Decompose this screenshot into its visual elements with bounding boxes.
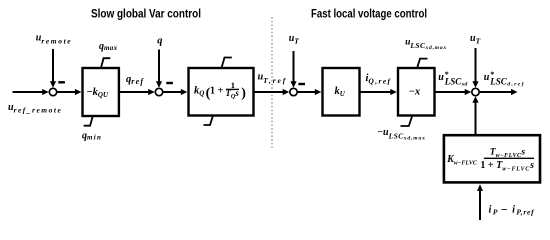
svg-text:uT: uT <box>289 33 300 46</box>
wire: kU to block -x, label iQ,ref <box>360 89 397 95</box>
summing junction S2 <box>155 88 162 95</box>
minus sign at S1 <box>58 81 65 83</box>
wire: kQ to summing junction S3, label uT,ref <box>254 89 290 95</box>
label iP - iP,ref <box>489 202 536 216</box>
block kU <box>323 68 360 116</box>
wire: iP - iP,ref up into washout block <box>477 184 483 220</box>
wire: uT down into summing junction S4 <box>472 48 478 88</box>
block -x limiter <box>398 68 435 116</box>
svg-text:q: q <box>157 35 162 46</box>
svg-text:uref_remote: uref_remote <box>8 102 62 115</box>
svg-text:d,ref: d,ref <box>507 81 525 87</box>
svg-text:i: i <box>489 204 492 215</box>
svg-text:−x: −x <box>409 86 421 97</box>
svg-text:uremote: uremote <box>36 33 72 46</box>
svg-text:uT: uT <box>470 33 481 46</box>
label Kw-FLVC washout transfer function <box>446 147 534 172</box>
label kQ(1+1/TQs) <box>194 80 246 101</box>
saturation glyph bottom of -x <box>401 117 413 127</box>
wire: washout block up into S4 <box>472 96 478 134</box>
wire: input u_ref_remote into summing junction S1 <box>13 89 49 95</box>
wire: S1 to block -kQU <box>57 89 81 95</box>
wire: -kQU to summing junction S2, label q_ref <box>119 89 155 95</box>
svg-text:qmax: qmax <box>99 41 118 52</box>
svg-text:−: − <box>501 202 508 216</box>
svg-text:Fast local voltage control: Fast local voltage control <box>311 8 427 20</box>
svg-text:P: P <box>493 208 498 217</box>
wire: S3 to block kU <box>298 89 322 95</box>
svg-text:LSC: LSC <box>489 76 508 86</box>
label u*LSC_xd <box>438 70 467 87</box>
block K washout FLVC <box>444 135 540 182</box>
saturation glyph bottom of -kQU <box>84 116 93 126</box>
svg-text:P,ref: P,ref <box>516 208 535 217</box>
saturation glyph top of -x <box>417 59 427 68</box>
svg-text:u: u <box>438 72 444 83</box>
svg-text:−uLSCxd,max: −uLSCxd,max <box>377 127 426 142</box>
svg-text:uLSCxd,max: uLSCxd,max <box>405 37 447 51</box>
wire: u_remote down into summing junction S1 <box>50 49 56 88</box>
svg-text:iQ,ref: iQ,ref <box>366 73 392 85</box>
wire: q down into summing junction S2 <box>156 50 162 88</box>
wire: -x to summing junction S4, label u*LSC_xd <box>435 89 472 95</box>
minus sign at S3 <box>298 83 305 85</box>
saturation glyph top of -kQU <box>101 58 110 68</box>
svg-text:LSC: LSC <box>444 76 463 86</box>
svg-text:qref: qref <box>126 74 144 86</box>
wire: S2 to block kQ <box>163 89 187 95</box>
svg-text:u: u <box>484 72 490 83</box>
svg-text:i: i <box>512 204 515 215</box>
label u*LSC_d,ref <box>484 70 525 87</box>
minus sign at S2 <box>166 82 173 84</box>
summing junction S4 <box>472 88 479 95</box>
divider dashed line between control zones <box>271 17 273 148</box>
svg-text:qmin: qmin <box>82 130 102 141</box>
svg-text:1 +: 1 + <box>210 85 224 96</box>
saturation glyph bottom of kQ <box>204 116 214 126</box>
summing junction S3 <box>290 88 297 95</box>
summing junction S1 <box>49 88 56 95</box>
svg-text:xd: xd <box>461 81 468 87</box>
block kQ PI controller <box>189 68 254 116</box>
wire: uT down into summing junction S3 <box>290 51 296 88</box>
svg-text:): ) <box>241 86 246 101</box>
saturation glyph top of kQ <box>222 58 232 69</box>
svg-text:Slow global Var control: Slow global Var control <box>91 8 201 20</box>
block -kQU <box>83 68 119 116</box>
wire: S4 output u*LSC_d,ref <box>480 89 518 95</box>
